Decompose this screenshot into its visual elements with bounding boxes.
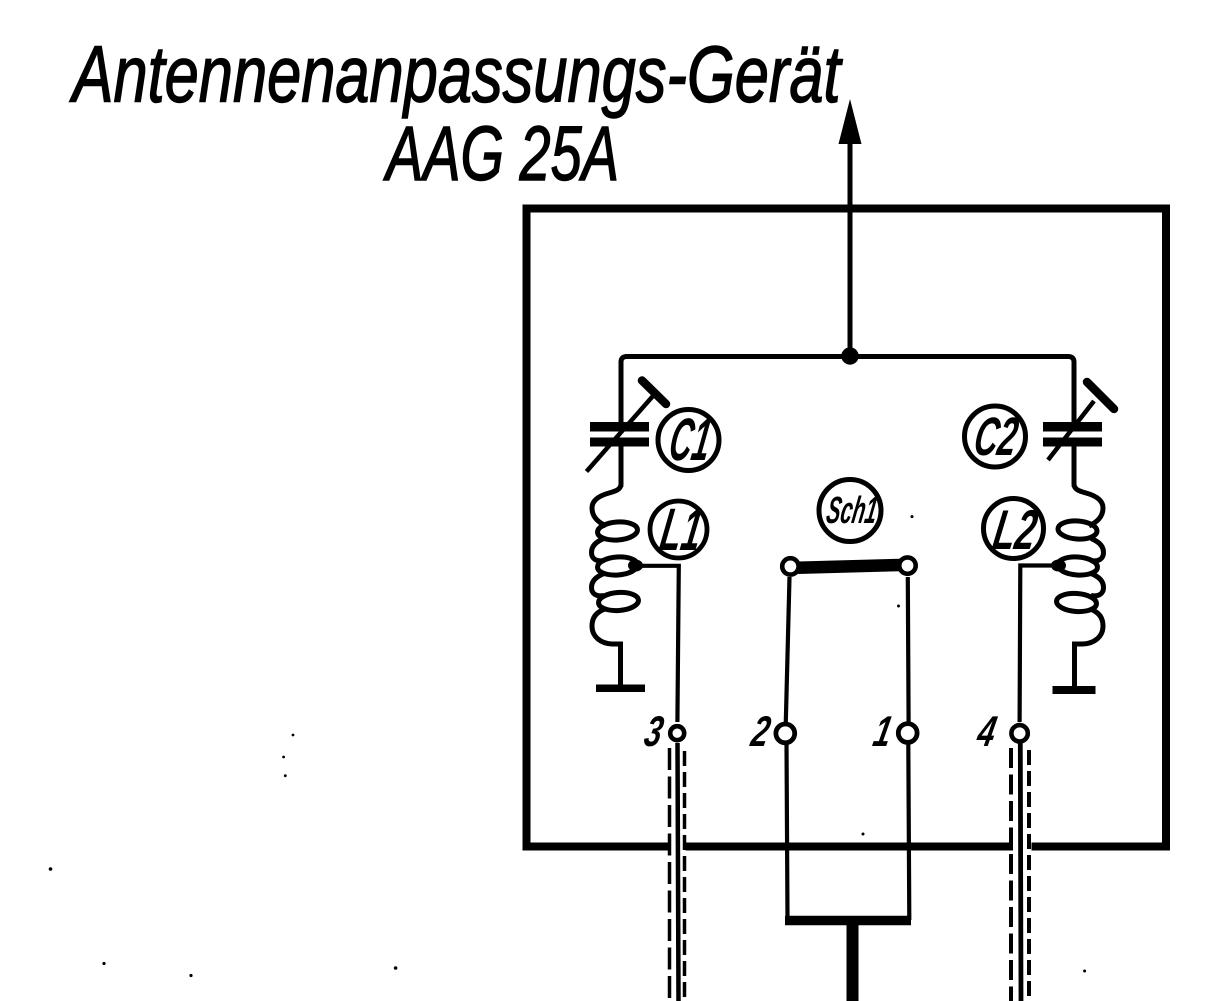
svg-text:AAG 25A: AAG 25A — [383, 111, 619, 197]
svg-text:Sch1: Sch1 — [823, 489, 881, 532]
svg-text:Antennenanpassungs-Gerät: Antennenanpassungs-Gerät — [69, 30, 842, 119]
